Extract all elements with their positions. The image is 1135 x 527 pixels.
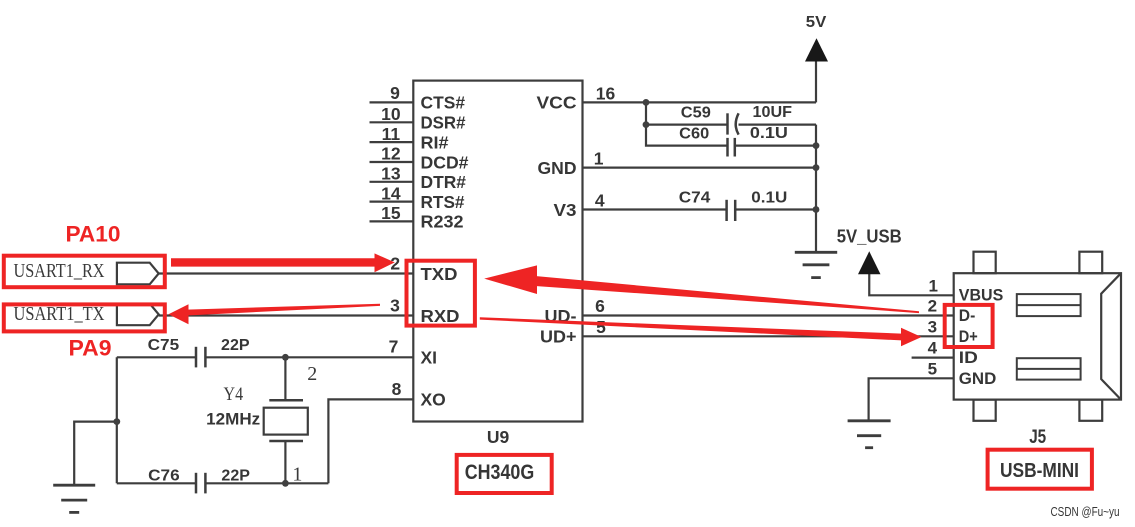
svg-text:14: 14: [381, 183, 401, 203]
svg-text:PA10: PA10: [66, 222, 121, 247]
svg-text:7: 7: [389, 336, 399, 356]
wire RXD pin 3 to USART1_TX tag: [159, 314, 414, 316]
svg-text:1: 1: [292, 464, 302, 486]
svg-text:R232: R232: [421, 212, 464, 232]
svg-text:C75: C75: [148, 337, 180, 354]
wire UD- pin 6 to USB D-: [583, 314, 954, 316]
wire USB GND to ground: [869, 378, 954, 421]
connector J5 tab bottom-left: [974, 400, 996, 421]
svg-text:RTS#: RTS#: [421, 192, 465, 212]
wire left rail crystal: [116, 357, 118, 483]
ground symbol USB: [848, 421, 891, 448]
junction node XI/crystal: [282, 354, 289, 361]
wire XI pin 7: [117, 356, 196, 358]
svg-text:6: 6: [595, 296, 605, 316]
svg-text:9: 9: [390, 83, 400, 103]
connector J5 pad bottom: [1017, 358, 1081, 379]
svg-text:5: 5: [596, 317, 606, 337]
svg-text:U9: U9: [487, 427, 510, 447]
svg-text:D-: D-: [959, 306, 976, 325]
power symbol 5V_USB triangle: [858, 251, 881, 274]
annotation red box TXD/RXD: [407, 261, 475, 326]
wire pin 15 stub: [370, 220, 414, 222]
wire pin 14 stub: [370, 201, 414, 203]
wire pin 10 stub: [370, 121, 414, 123]
svg-text:TXD: TXD: [421, 264, 458, 284]
wire ID stub: [912, 357, 954, 359]
svg-text:DSR#: DSR#: [421, 113, 466, 133]
svg-text:5V: 5V: [806, 14, 827, 31]
svg-text:11: 11: [382, 124, 401, 144]
wire TXD pin 2 to USART1_RX tag: [159, 272, 414, 274]
wire pin 11 stub: [370, 141, 414, 143]
svg-text:GND: GND: [959, 369, 997, 388]
svg-text:4: 4: [595, 191, 605, 211]
svg-text:CH340G: CH340G: [465, 461, 535, 484]
connector J5 tab top-left: [974, 252, 996, 274]
svg-text:D+: D+: [959, 327, 978, 346]
wire VCC pin 16: [583, 101, 817, 103]
annotation red box D-/D+: [945, 305, 993, 347]
svg-text:13: 13: [381, 164, 401, 184]
svg-text:USB-MINI: USB-MINI: [1000, 460, 1079, 482]
svg-text:10UF: 10UF: [753, 104, 793, 121]
svg-text:GND: GND: [538, 158, 577, 178]
svg-text:4: 4: [928, 339, 938, 358]
svg-text:0.1U: 0.1U: [751, 189, 787, 206]
power symbol 5V triangle: [805, 38, 828, 61]
svg-text:5: 5: [928, 359, 937, 378]
svg-text:DTR#: DTR#: [421, 172, 467, 192]
svg-text:VBUS: VBUS: [959, 285, 1004, 304]
wire pin 13 stub: [370, 181, 414, 183]
connector J5 USB body: [954, 273, 1121, 399]
svg-text:C76: C76: [148, 468, 180, 485]
capacitor C75 plates: [195, 347, 198, 368]
capacitor C60 plates: [726, 138, 729, 157]
svg-text:2: 2: [307, 363, 317, 385]
svg-text:J5: J5: [1029, 427, 1046, 448]
wire ground branch left: [74, 422, 117, 486]
connector J5 tab top-right: [1079, 252, 1102, 274]
svg-text:12: 12: [381, 144, 401, 164]
crystal Y4 stems: [284, 357, 286, 400]
svg-text:USART1_RX: USART1_RX: [14, 260, 105, 282]
annotation arrow D RXD to D+: [901, 328, 922, 346]
svg-text:CSDN @Fu~yu: CSDN @Fu~yu: [1051, 504, 1120, 519]
annotation arrow B to USART1_TX: [169, 304, 189, 324]
wire 5V_USB stem to VBUS: [869, 274, 953, 295]
connector tag USART1_TX: [117, 304, 159, 326]
svg-text:22P: 22P: [221, 337, 250, 354]
annotation arrow A USART1_RX to TXD: [171, 253, 395, 272]
svg-text:3: 3: [390, 295, 400, 315]
connector tag USART1_RX: [117, 263, 159, 285]
svg-text:15: 15: [381, 203, 401, 223]
svg-text:V3: V3: [554, 200, 577, 220]
connector J5 bevel: [1101, 273, 1121, 399]
annotation red box USB-MINI: [988, 450, 1092, 489]
svg-text:VCC: VCC: [537, 93, 577, 113]
annotation red box CH340G: [457, 455, 552, 493]
svg-text:0.1U: 0.1U: [750, 125, 788, 142]
junction node C59 branch: [643, 121, 650, 128]
annotation red box USART1_RX: [4, 256, 165, 288]
junction node C76/crystal: [282, 480, 289, 487]
wire GND pin 1: [583, 167, 817, 169]
junction node left rail ground: [113, 418, 120, 425]
wire C59 branch: [646, 123, 728, 125]
ground symbol right rail: [795, 252, 837, 277]
wire C60 branch right: [735, 145, 816, 147]
svg-text:XO: XO: [421, 390, 446, 410]
crystal Y4 plates: [269, 399, 303, 402]
wire pin 12 stub: [370, 161, 414, 163]
svg-text:C60: C60: [679, 125, 709, 142]
wire UD+ pin 5 to USB D+: [583, 335, 954, 337]
junction node C60 right: [813, 142, 820, 149]
connector J5 tab bottom-right: [1079, 400, 1102, 421]
svg-text:2: 2: [928, 297, 937, 316]
op-amp U9 CH340G IC body: [413, 81, 582, 422]
svg-text:3: 3: [928, 317, 937, 336]
svg-text:8: 8: [392, 379, 402, 399]
junction node VCC/C59 column top: [643, 99, 650, 106]
wire C76 branch: [117, 482, 196, 484]
junction node V3 right: [813, 206, 820, 213]
svg-text:C74: C74: [679, 189, 711, 206]
svg-text:XI: XI: [421, 348, 438, 368]
svg-text:UD+: UD+: [540, 327, 577, 347]
svg-text:5V_USB: 5V_USB: [837, 227, 902, 247]
svg-text:Y4: Y4: [224, 384, 244, 405]
wire XO pin 8: [328, 399, 413, 483]
svg-text:RI#: RI#: [421, 132, 449, 152]
capacitor C74 plates: [725, 200, 728, 221]
svg-text:C59: C59: [681, 104, 711, 121]
capacitor C76 plates: [195, 473, 198, 494]
wire 5V stem: [815, 61, 817, 102]
connector J5 pad top: [1017, 294, 1081, 316]
svg-text:22P: 22P: [221, 468, 250, 485]
svg-text:10: 10: [381, 104, 401, 124]
svg-text:ID: ID: [959, 348, 978, 367]
wire V3 pin 4: [583, 208, 727, 210]
svg-text:RXD: RXD: [421, 306, 460, 326]
wire ground rail right: [815, 125, 817, 253]
crystal Y4 body: [264, 408, 308, 435]
annotation red box USART1_TX: [4, 304, 165, 331]
ground symbol crystal: [53, 485, 95, 512]
svg-text:CTS#: CTS#: [421, 93, 466, 113]
capacitor C59 plates: [726, 113, 729, 134]
svg-text:16: 16: [596, 83, 616, 103]
junction node GND right: [813, 164, 820, 171]
annotation arrow C D- to TXD: [484, 265, 537, 294]
wire pin 9 stub: [370, 101, 414, 103]
svg-text:1: 1: [928, 276, 937, 295]
wire VCC cap branch vertical: [646, 102, 728, 145]
svg-text:1: 1: [594, 149, 604, 169]
svg-text:12MHz: 12MHz: [206, 410, 260, 429]
svg-text:DCD#: DCD#: [421, 152, 469, 172]
svg-text:PA9: PA9: [69, 335, 112, 360]
